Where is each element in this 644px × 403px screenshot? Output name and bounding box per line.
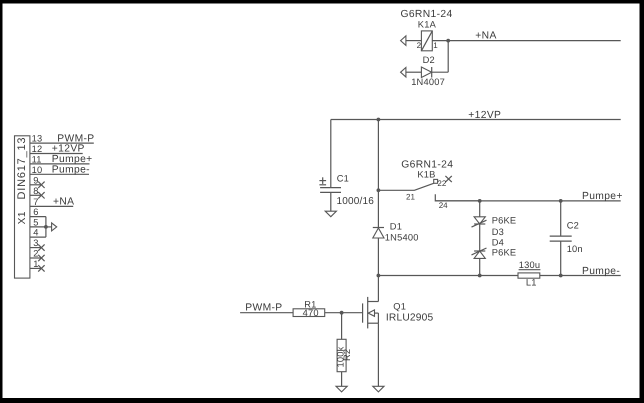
- svg-text:2: 2: [33, 249, 38, 259]
- svg-text:4: 4: [33, 228, 38, 238]
- wire down to D1: [377, 190, 379, 227]
- svg-text:D4: D4: [492, 237, 504, 247]
- svg-text:1N4007: 1N4007: [411, 77, 445, 87]
- net arrow into D2 anode: [401, 68, 406, 78]
- svg-text:1000/16: 1000/16: [337, 196, 375, 207]
- svg-text:R2: R2: [342, 349, 352, 361]
- svg-text:+12VP: +12VP: [52, 144, 85, 155]
- pin 13 wire: [30, 142, 94, 144]
- svg-text:13: 13: [32, 134, 43, 144]
- wire R2 bottom to ground: [341, 372, 343, 387]
- transistor Q1: [363, 297, 379, 329]
- wire +12VP rail: [331, 119, 621, 121]
- svg-text:K1A: K1A: [418, 19, 437, 29]
- pin 6 wire: [30, 216, 46, 218]
- pin 7 wire: [30, 205, 73, 207]
- pin 10 wire: [30, 173, 89, 175]
- wire junction down to D2: [447, 41, 449, 73]
- pin 12 wire: [30, 153, 83, 155]
- ground below C1: [325, 211, 336, 217]
- svg-text:3: 3: [33, 238, 38, 248]
- wire Pumpe+ down to D3: [479, 201, 481, 217]
- svg-text:PWM-P: PWM-P: [57, 133, 94, 144]
- capacitor C2 plates: [550, 236, 572, 241]
- resistor R2: [337, 339, 346, 371]
- no-connect cross pin 1: [38, 265, 44, 271]
- pin 2 stub: [30, 257, 41, 259]
- pin 5 wire: [30, 226, 46, 228]
- wire R1 to gate: [325, 312, 363, 314]
- svg-text:L1: L1: [526, 278, 537, 288]
- junction gate / R2: [340, 311, 344, 315]
- junction +12VP to vertical: [377, 118, 381, 122]
- wire D1 anode down to Pumpe- node: [377, 238, 379, 276]
- svg-text:10: 10: [32, 165, 43, 175]
- no-connect cross pin 8: [38, 192, 44, 198]
- wire PWM-P to R1: [240, 312, 293, 314]
- svg-text:PWM-P: PWM-P: [245, 303, 282, 314]
- wire bus joining pins 6-5-4: [45, 217, 47, 238]
- junction Pumpe+ / D3: [478, 199, 482, 203]
- connector X1 body: [15, 136, 30, 278]
- svg-text:P6KE: P6KE: [492, 247, 517, 257]
- wire Pumpe+ rail: [435, 200, 620, 202]
- svg-text:+12VP: +12VP: [468, 110, 501, 121]
- frame border bottom: [0, 398, 644, 403]
- svg-text:24: 24: [439, 201, 448, 210]
- svg-text:10n: 10n: [567, 244, 583, 254]
- underline of 130u: [519, 269, 541, 271]
- pin 4 wire: [30, 236, 46, 238]
- svg-text:22: 22: [437, 179, 446, 188]
- wire Pumpe- node down to Q1 drain: [377, 276, 379, 302]
- svg-text:Pumpe+: Pumpe+: [52, 154, 93, 165]
- wire rail corner down to C1: [330, 120, 332, 188]
- svg-text:470: 470: [303, 308, 319, 318]
- svg-text:Pumpe-: Pumpe-: [582, 266, 620, 277]
- wire +12VP down to K1B common: [377, 120, 379, 191]
- plus mark of C1: [319, 177, 326, 185]
- frame border left: [0, 0, 3, 403]
- svg-text:5: 5: [33, 217, 38, 227]
- pin 3 stub: [30, 247, 41, 249]
- svg-text:Q1: Q1: [393, 301, 406, 311]
- diode D1: [373, 228, 384, 239]
- wire arrow to K1A coil: [406, 40, 422, 42]
- svg-text:8: 8: [33, 186, 38, 196]
- junction Pumpe- / D4: [478, 274, 482, 278]
- diode D2: [421, 67, 431, 78]
- relay coil K1A: [421, 31, 432, 51]
- ground below R2: [336, 386, 347, 392]
- junction node +NA: [446, 39, 450, 43]
- junction Pumpe- / C2: [559, 274, 563, 278]
- wire Q1 source to ground: [377, 323, 379, 386]
- junction Pumpe+ / C2: [559, 199, 563, 203]
- svg-text:G6RN1-24: G6RN1-24: [401, 9, 453, 20]
- wire +NA rail: [448, 40, 621, 42]
- pin 9 stub: [30, 184, 41, 186]
- capacitor C1 plates: [320, 188, 341, 193]
- frame border top: [0, 0, 644, 4]
- zener diode D4: [472, 248, 487, 258]
- svg-text:6: 6: [33, 207, 38, 217]
- svg-text:11: 11: [32, 154, 42, 164]
- svg-text:2: 2: [417, 41, 422, 50]
- svg-text:130u: 130u: [519, 260, 540, 270]
- junction K1B tee: [377, 188, 381, 192]
- wire Pumpe+ down to C2: [560, 201, 562, 236]
- wire Pumpe- rail: [378, 275, 620, 277]
- no-connect cross pin 3: [38, 244, 44, 250]
- svg-text:DIN617_13: DIN617_13: [16, 137, 28, 200]
- wire D2 cathode to vertical: [432, 71, 449, 73]
- pin 1 stub: [30, 267, 41, 269]
- svg-text:+NA: +NA: [475, 31, 496, 42]
- net arrow into K1A pin 2: [401, 36, 406, 46]
- svg-text:1: 1: [433, 41, 438, 50]
- wire C2 down to Pumpe-: [560, 241, 562, 275]
- frame border right: [640, 0, 644, 403]
- ground below Q1: [373, 386, 384, 392]
- svg-text:Pumpe+: Pumpe+: [582, 191, 623, 202]
- svg-text:IRLU2905: IRLU2905: [386, 312, 434, 323]
- junction pin 5 node: [44, 225, 48, 229]
- no-connect cross pin 9: [38, 182, 44, 188]
- svg-text:X1: X1: [17, 211, 28, 224]
- no-connect cross pin 2: [38, 255, 44, 261]
- svg-text:21: 21: [406, 193, 415, 202]
- pin 8 stub: [30, 194, 41, 196]
- svg-text:+NA: +NA: [53, 197, 74, 208]
- svg-text:D2: D2: [423, 55, 435, 65]
- wire D3 cathode to D4 cathode: [479, 224, 481, 251]
- svg-text:C1: C1: [337, 174, 349, 184]
- svg-text:D3: D3: [492, 227, 504, 237]
- junction Pumpe- / drain column: [377, 274, 381, 278]
- not connected cross on 22: [445, 176, 451, 182]
- pin 11 wire: [30, 163, 90, 165]
- wire arrow to D2: [406, 71, 422, 73]
- svg-text:1N5400: 1N5400: [385, 233, 419, 243]
- svg-text:Pumpe-: Pumpe-: [52, 165, 90, 176]
- NC terminal square 22: [434, 179, 438, 183]
- svg-text:C2: C2: [567, 221, 579, 231]
- wire junction to arrow: [46, 226, 52, 228]
- wire K1B common from tee: [378, 189, 414, 191]
- wire K1A pin1 to node NA: [432, 40, 448, 42]
- resistor R1: [293, 309, 325, 317]
- svg-text:9: 9: [33, 175, 38, 185]
- svg-text:1: 1: [33, 259, 38, 269]
- zener diode D3: [472, 217, 487, 227]
- wire R2 top: [341, 313, 343, 340]
- contact arm of K1B: [414, 183, 434, 190]
- svg-text:12: 12: [32, 144, 43, 154]
- inductor L1 body: [518, 273, 540, 278]
- wire C1 to ground: [330, 192, 332, 211]
- svg-text:D1: D1: [390, 221, 402, 231]
- svg-text:7: 7: [33, 197, 38, 207]
- svg-text:P6KE: P6KE: [492, 216, 517, 226]
- net arrow out of pin 5: [52, 223, 57, 231]
- wire NO terminal 24 to Pumpe+: [435, 194, 480, 201]
- svg-text:K1B: K1B: [417, 169, 435, 179]
- wire D4 anode to Pumpe-: [479, 258, 481, 275]
